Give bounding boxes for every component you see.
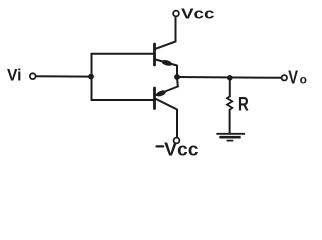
terminal output Vo [282, 75, 287, 80]
terminal input [30, 73, 36, 79]
svg-text:Vi: Vi [7, 66, 22, 85]
wire bracket vertical [91, 54, 93, 100]
ground [217, 134, 244, 141]
svg-text:Vcc: Vcc [181, 6, 215, 23]
junction input node [88, 74, 94, 80]
wire base Q1 [92, 53, 154, 55]
svg-text:R: R [238, 94, 249, 115]
resistor R [227, 78, 249, 134]
power terminal +VCC [173, 11, 179, 17]
node Vo label [288, 68, 307, 88]
svg-text:o: o [300, 73, 307, 87]
wire base Q2 [92, 99, 154, 101]
wire input [36, 75, 91, 77]
svg-text:V: V [288, 68, 298, 88]
svg-text:Vcc: Vcc [164, 140, 198, 160]
wire output [177, 76, 281, 79]
transistor Q2 [155, 77, 178, 137]
transistor Q1 [155, 17, 178, 78]
power terminal -VCC [174, 138, 180, 144]
junction output node [174, 74, 180, 80]
junction resistor top [227, 75, 233, 81]
